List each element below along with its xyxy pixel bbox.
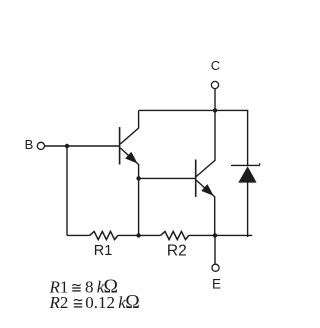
- diode cathode bar: [231, 164, 260, 166]
- transistor Q2 collector diagonal: [196, 160, 215, 176]
- transistor Q2 emitter arrowhead: [201, 184, 213, 196]
- transistor Q1 collector riser: [138, 110, 140, 128]
- transistor Q1 emitter arrowhead: [125, 152, 137, 164]
- wire left branch B to R1: [66, 146, 68, 235]
- wire bottom rail segment 1: [67, 234, 90, 236]
- diode cathode bar end tick: [259, 163, 261, 165]
- junction dot node B branch: [65, 144, 69, 148]
- junction dot top rail / C: [213, 108, 217, 112]
- terminal circle C: [211, 81, 218, 88]
- wire Q2 collector vertical: [214, 110, 216, 160]
- wire Q2 base lead: [139, 177, 195, 179]
- resistor R2: [161, 231, 189, 239]
- svg-text:R2: R2: [49, 293, 69, 312]
- svg-text:C: C: [211, 58, 220, 73]
- junction dot E node: [213, 233, 217, 237]
- transistor Q1 emitter diagonal: [120, 148, 138, 165]
- diode D1 anode triangle: [238, 166, 256, 182]
- svg-text:R2: R2: [167, 243, 187, 260]
- wire top rail C node: [139, 109, 249, 111]
- transistor Q1 base bar: [119, 127, 121, 164]
- wire Q1 emitter vertical: [138, 164, 140, 178]
- terminal circle E: [212, 264, 219, 271]
- junction dot Q1 emitter / Q2 base: [136, 176, 140, 180]
- svg-text:0.12 kΩ: 0.12 kΩ: [85, 292, 139, 313]
- transistor Q2 base bar: [195, 160, 197, 197]
- junction dot bottom rail R1/R2: [136, 233, 140, 237]
- wire diode cathode vertical: [247, 110, 249, 165]
- terminal circle B: [37, 142, 44, 149]
- svg-text:B: B: [25, 137, 34, 152]
- resistor R1: [90, 231, 118, 239]
- wire node to bottom rail: [138, 178, 140, 235]
- wire C terminal lead: [214, 89, 216, 111]
- transistor Q2 emitter diagonal: [196, 180, 214, 197]
- wire bottom rail segment 3: [189, 234, 252, 236]
- wire E terminal lead: [214, 235, 216, 264]
- congruent symbol line 2: [74, 300, 82, 307]
- transistor Q1 collector diagonal: [120, 128, 138, 144]
- wire bottom rail segment 2: [118, 234, 161, 236]
- wire B base lead: [45, 145, 120, 147]
- svg-text:R1: R1: [94, 243, 113, 259]
- wire diode anode vertical: [247, 182, 249, 237]
- wire Q2 emitter vertical: [214, 196, 216, 235]
- svg-text:E: E: [212, 276, 221, 291]
- congruent symbol line 1: [72, 285, 80, 291]
